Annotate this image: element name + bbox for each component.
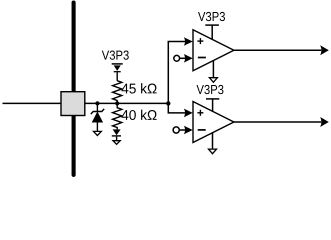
ground: U2 bbox=[209, 149, 217, 154]
net label V3P3 (divider) bbox=[102, 51, 129, 60]
ground: under zener bbox=[94, 131, 102, 135]
wire: zener to ground bbox=[96, 122, 98, 131]
wire: U2 output bbox=[234, 121, 321, 123]
wire: U1 ground stub bbox=[212, 60, 214, 77]
value label 45 kOhm bbox=[122, 83, 157, 93]
net label V3P3 (U2 supply) bbox=[197, 85, 224, 94]
wire: tap to R1 bbox=[116, 72, 118, 81]
U2 minus label bbox=[198, 129, 206, 131]
op-amp U1 bbox=[193, 30, 234, 71]
wire: zener stub bbox=[96, 103, 98, 111]
arrow into U2 +in bbox=[184, 109, 193, 118]
wire: U1 output bbox=[234, 49, 321, 51]
node bubble: U2 -in bbox=[173, 127, 179, 133]
junction: node to comparators bbox=[166, 101, 170, 105]
ground: under R2 bbox=[113, 141, 120, 145]
diode D1 zener cathode bar bbox=[91, 109, 104, 114]
op-amp U2 bbox=[193, 102, 234, 143]
net label V3P3 (U1 supply) bbox=[198, 12, 225, 21]
arrow: U2 output bbox=[320, 117, 329, 127]
node bubble: U1 -in bbox=[174, 55, 180, 61]
wire: node up to U1 +in bbox=[168, 42, 185, 104]
wire: bubble to U2 -in bbox=[179, 129, 185, 131]
wire: bubble to U1 -in bbox=[180, 57, 185, 59]
wire: U2 ground stub bbox=[212, 133, 214, 149]
power tap V3P3 bar (U2) bbox=[206, 98, 219, 100]
arrow into U2 -in bbox=[184, 126, 193, 135]
resistor R2 40k zigzag bbox=[113, 103, 122, 129]
U1 plus label bbox=[197, 40, 203, 42]
wire: node down to U2 +in bbox=[168, 103, 185, 113]
wire: input from left edge to pad bbox=[3, 102, 62, 104]
value label 40 kOhm bbox=[122, 110, 157, 120]
U2 plus label bbox=[197, 112, 203, 114]
diode D1 zener triangle bbox=[92, 112, 102, 122]
power tap arrow (divider) bbox=[114, 65, 121, 71]
U1 minus label bbox=[198, 57, 206, 59]
junction: divider node bbox=[115, 101, 119, 105]
arrow: U1 output bbox=[320, 45, 329, 55]
ground: U1 bbox=[209, 78, 217, 83]
resistor R1 45k zigzag bbox=[113, 81, 122, 104]
pad: gray I/O cell box bbox=[61, 92, 85, 116]
wire: thick vertical bus bbox=[72, 3, 76, 175]
arrow into U1 -in bbox=[184, 54, 193, 63]
power tap V3P3 bar (U1) bbox=[205, 24, 219, 26]
arrow into U1 +in bbox=[184, 37, 193, 46]
junction: zener tap bbox=[95, 101, 99, 105]
power tap V3P3 bar (divider) bbox=[112, 63, 123, 65]
wire: pad to divider node bbox=[85, 102, 169, 104]
ground arrow under R2 bbox=[113, 129, 121, 135]
